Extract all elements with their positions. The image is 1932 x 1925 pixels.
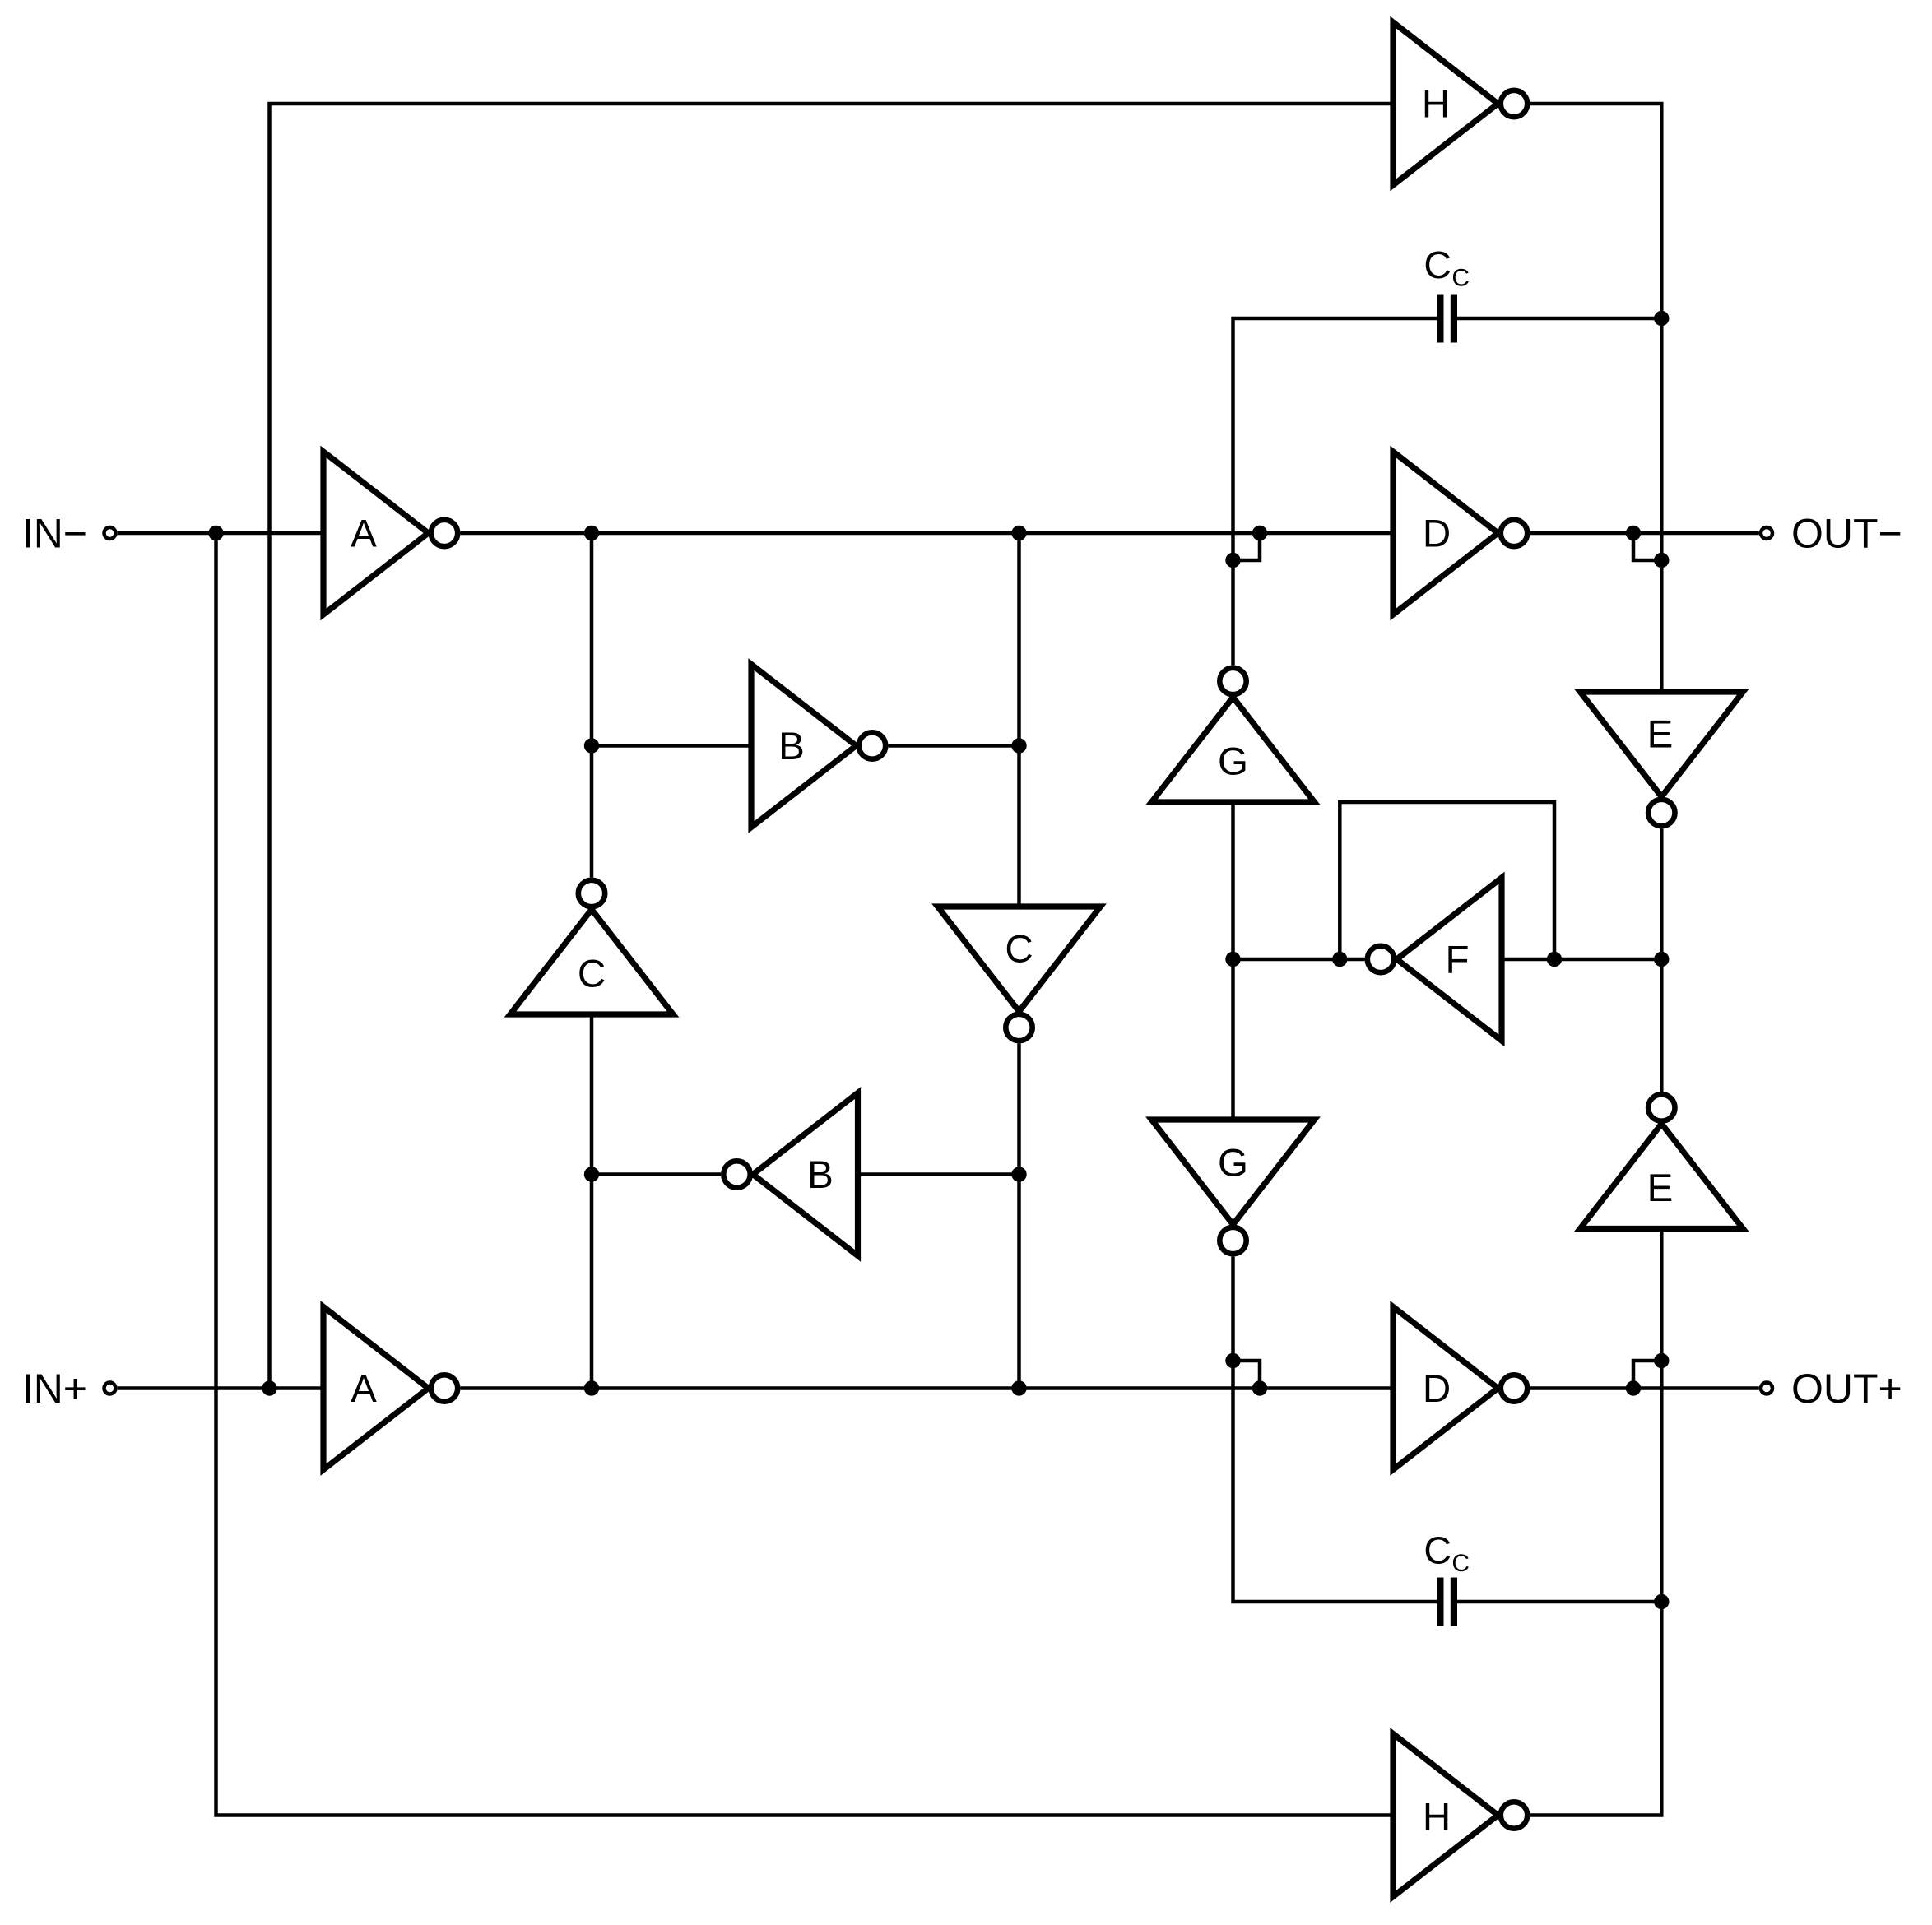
svg-text:IN−: IN− bbox=[22, 511, 87, 557]
svg-text:C: C bbox=[578, 952, 606, 995]
svg-text:D: D bbox=[1423, 1367, 1451, 1411]
svg-text:C: C bbox=[1005, 927, 1033, 971]
svg-text:B: B bbox=[807, 1153, 834, 1197]
svg-text:D: D bbox=[1423, 512, 1451, 555]
svg-text:G: G bbox=[1218, 1141, 1248, 1185]
svg-text:OUT−: OUT− bbox=[1791, 511, 1902, 557]
svg-text:OUT+: OUT+ bbox=[1791, 1366, 1902, 1412]
svg-text:E: E bbox=[1647, 1167, 1674, 1210]
svg-text:G: G bbox=[1218, 740, 1248, 783]
svg-text:E: E bbox=[1647, 712, 1674, 756]
svg-text:H: H bbox=[1423, 1795, 1451, 1839]
svg-text:A: A bbox=[351, 512, 377, 555]
svg-text:C: C bbox=[1423, 244, 1451, 286]
svg-text:F: F bbox=[1445, 938, 1469, 981]
svg-text:B: B bbox=[778, 725, 805, 768]
svg-text:A: A bbox=[351, 1367, 377, 1411]
svg-text:IN+: IN+ bbox=[22, 1366, 87, 1412]
svg-text:C: C bbox=[1451, 264, 1470, 291]
svg-text:H: H bbox=[1422, 82, 1450, 126]
svg-text:C: C bbox=[1423, 1529, 1451, 1572]
svg-text:C: C bbox=[1451, 1550, 1470, 1577]
